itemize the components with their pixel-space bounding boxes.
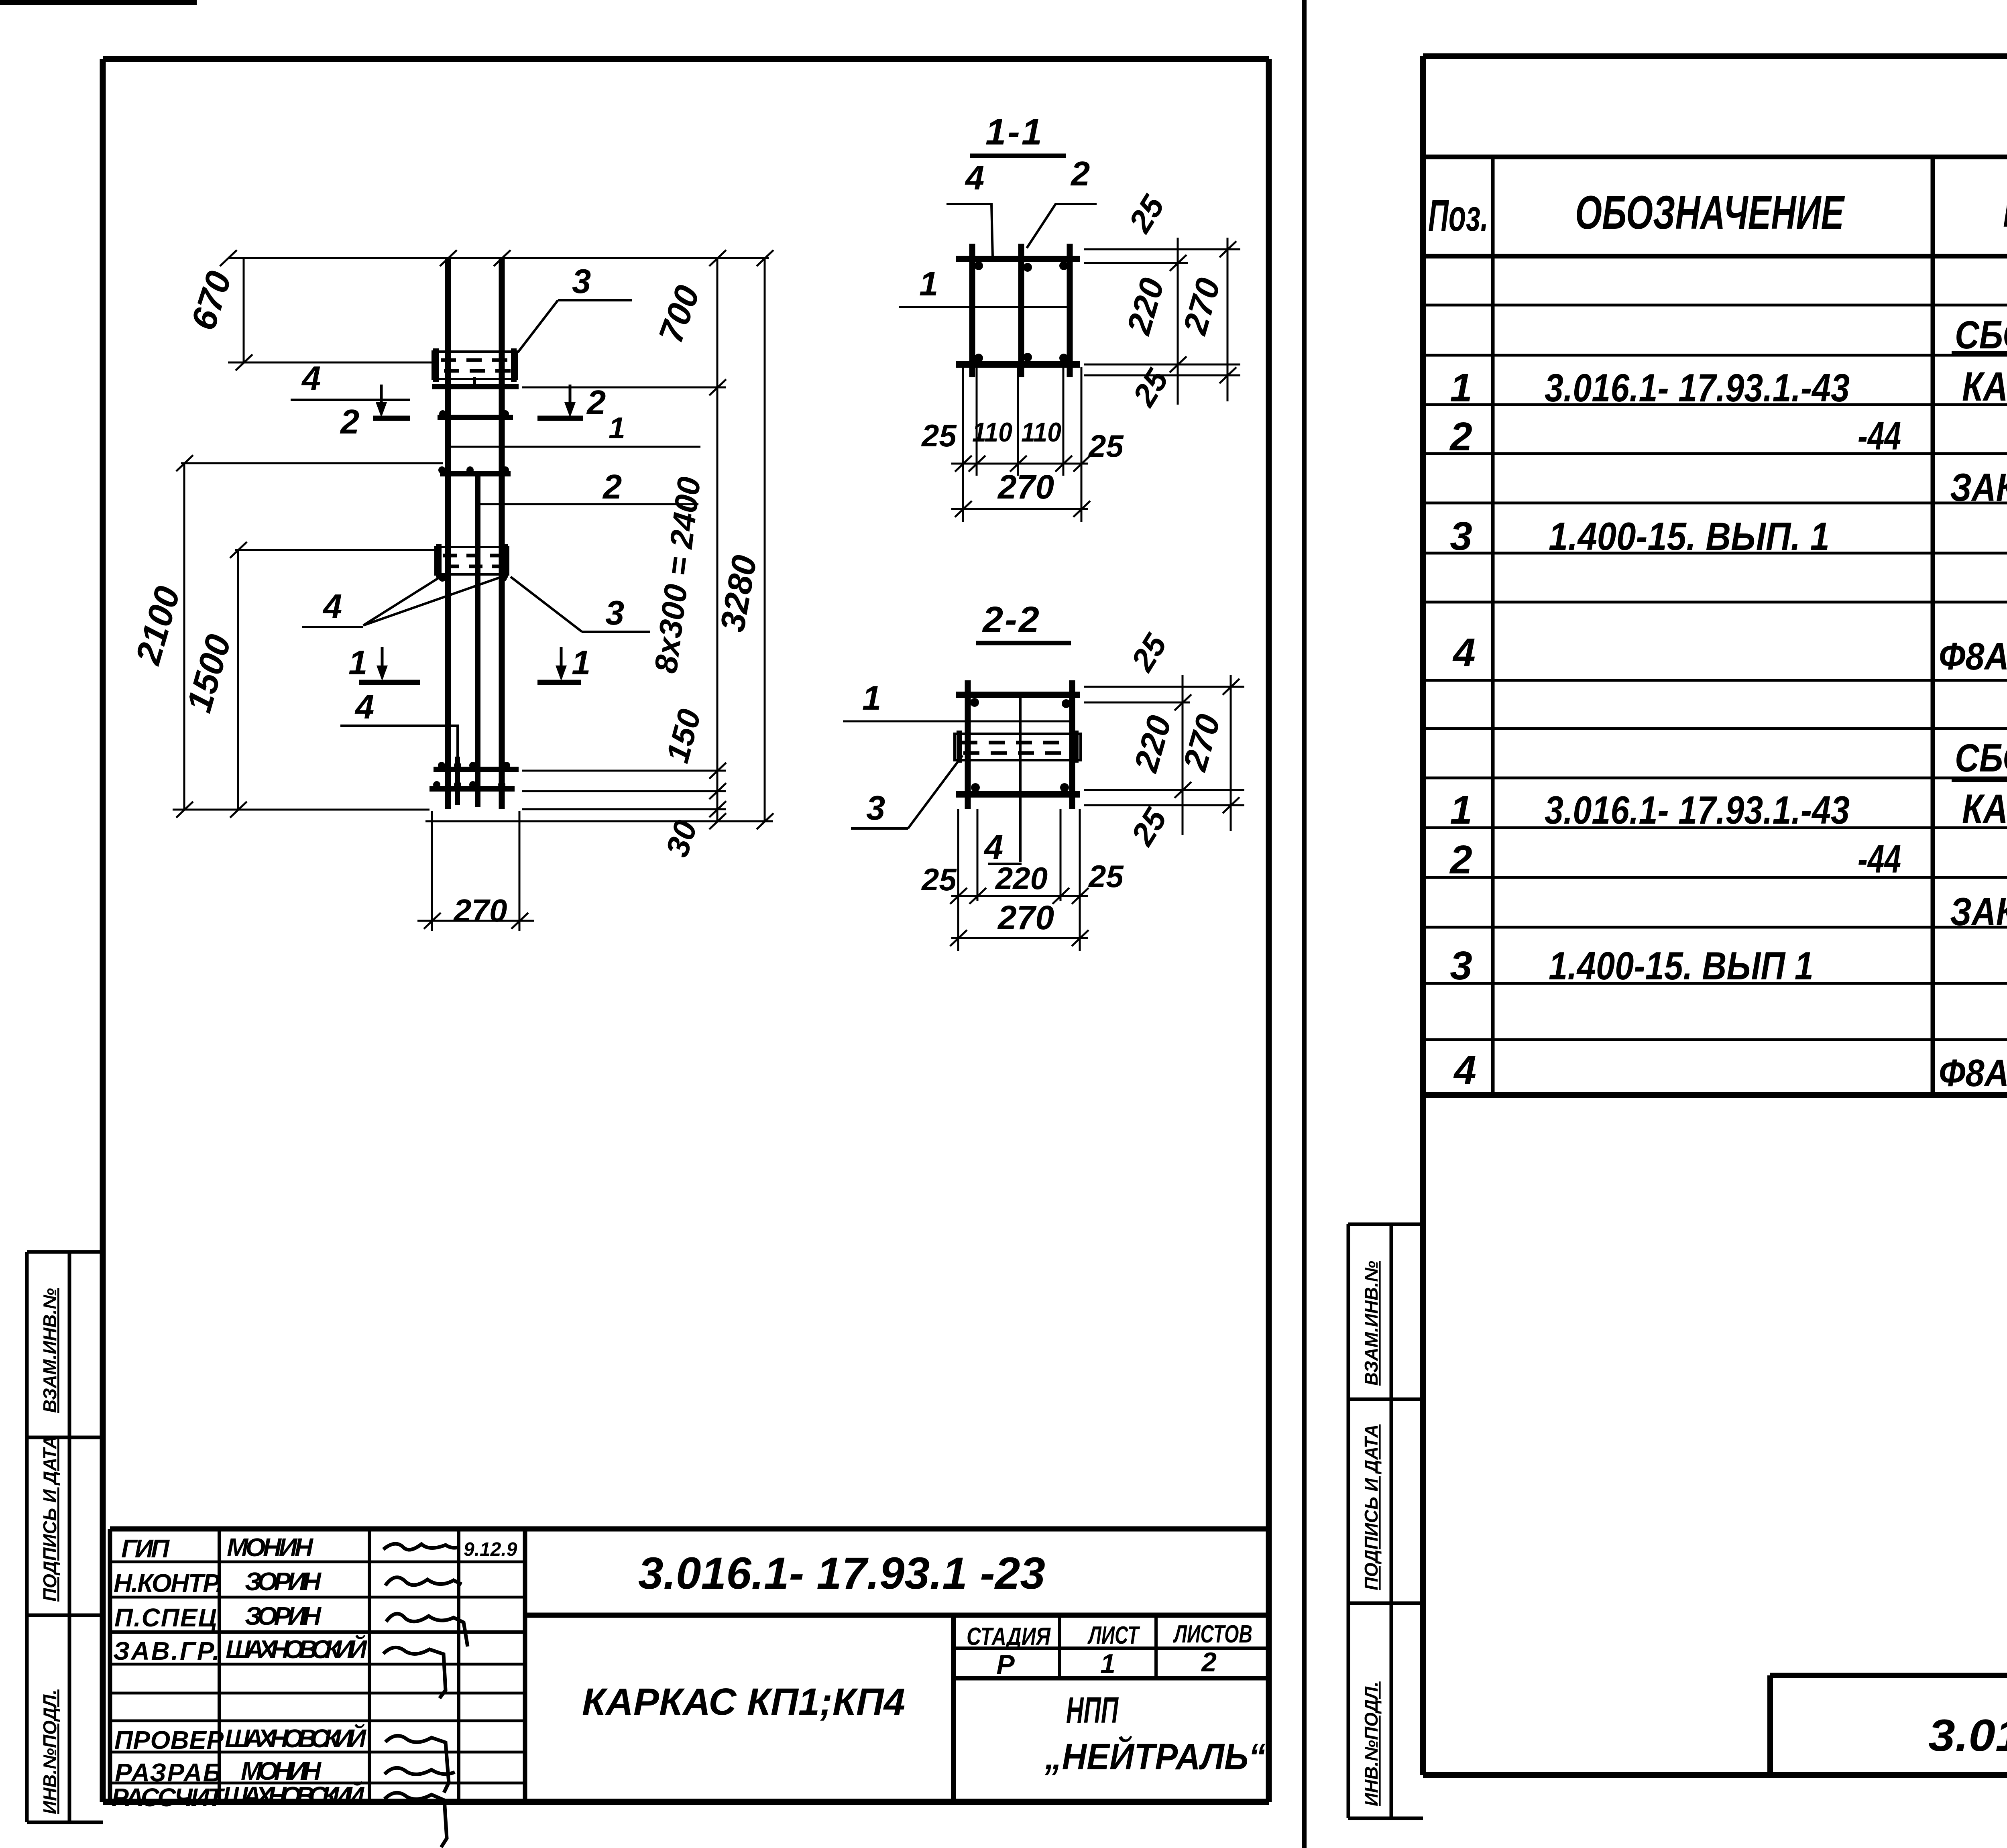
bottom dimension 270 — [417, 811, 534, 931]
svg-text:Р: Р — [996, 1649, 1015, 1680]
svg-text:ШАХНОВСКИЙ: ШАХНОВСКИЙ — [223, 1781, 365, 1810]
sec1 bar section dots — [974, 261, 1068, 362]
table top — [1423, 155, 2007, 159]
svg-text:270: 270 — [453, 893, 507, 928]
sec1 stirrup top — [956, 256, 1080, 262]
svg-text:1.400-15. ВЫП 1: 1.400-15. ВЫП 1 — [1549, 944, 1814, 988]
right extension lines — [425, 387, 773, 821]
dimension 670 — [228, 258, 434, 370]
svg-text:1500: 1500 — [179, 630, 238, 717]
svg-text:1.400-15. ВЫП. 1: 1.400-15. ВЫП. 1 — [1549, 514, 1830, 558]
left page side stamp strip — [27, 1252, 103, 1822]
dimension 3280 line — [757, 258, 773, 829]
title block row lines — [110, 1561, 525, 1563]
svg-text:ИНВ.№ПОДЛ.: ИНВ.№ПОДЛ. — [39, 1689, 60, 1814]
tie (second from top) — [438, 415, 513, 420]
СТАДИЯ box — [951, 1615, 956, 1802]
svg-text:670: 670 — [183, 267, 239, 335]
svg-text:270: 270 — [997, 899, 1054, 936]
inter-page gutter line — [1302, 0, 1307, 1848]
svg-text:9.12.9: 9.12.9 — [464, 1539, 517, 1560]
svg-text:110: 110 — [972, 417, 1012, 448]
svg-text:4: 4 — [1453, 1048, 1476, 1093]
svg-text:2: 2 — [1201, 1647, 1217, 1677]
svg-text:220: 220 — [1119, 274, 1171, 339]
svg-text:ЗОРИН: ЗОРИН — [245, 1567, 322, 1596]
sec1 bottom dimensions — [951, 367, 1090, 522]
svg-text:ЗАВ.ГР.: ЗАВ.ГР. — [113, 1636, 220, 1665]
right page border frame — [1423, 56, 2007, 1775]
extension line to section 1-1 — [447, 446, 700, 448]
svg-text:3280: 3280 — [713, 552, 764, 635]
left page border frame — [103, 59, 1269, 1802]
bottom tie upper — [434, 767, 519, 772]
svg-text:270: 270 — [1175, 274, 1227, 339]
svg-text:ШАХНОВСКИЙ: ШАХНОВСКИЙ — [225, 1723, 367, 1753]
svg-text:2: 2 — [1070, 155, 1090, 193]
tie hook — [473, 377, 476, 387]
row lines — [1423, 304, 2007, 307]
svg-text:25: 25 — [1088, 428, 1124, 464]
svg-text:1: 1 — [1100, 1649, 1115, 1679]
svg-text:4: 4 — [965, 159, 984, 197]
svg-text:Н.КОНТР.: Н.КОНТР. — [114, 1569, 223, 1598]
svg-text:ПОДПИСЬ И ДАТА: ПОДПИСЬ И ДАТА — [39, 1436, 60, 1602]
tie under plate — [432, 384, 519, 389]
svg-text:110: 110 — [1021, 417, 1061, 448]
title block column lines — [108, 1529, 112, 1802]
svg-text:4: 4 — [301, 360, 321, 398]
svg-text:2: 2 — [340, 403, 359, 441]
svg-text:3.016.1- 17.93.1.-43: 3.016.1- 17.93.1.-43 — [1545, 366, 1850, 410]
embedded plate MH806 lower (pos.3) — [436, 544, 508, 578]
top dimension line — [220, 250, 773, 266]
svg-text:КАРКАС КП1;КП4: КАРКАС КП1;КП4 — [582, 1681, 905, 1723]
svg-text:ВЗАМ.ИНВ.№: ВЗАМ.ИНВ.№ — [39, 1288, 60, 1413]
svg-text:3: 3 — [866, 789, 885, 827]
svg-text:3.016.1- 17. 93.1 -23: 3.016.1- 17. 93.1 -23 — [1928, 1710, 2007, 1760]
svg-text:„НЕЙТРАЛЬ“: „НЕЙТРАЛЬ“ — [1044, 1735, 1266, 1777]
svg-text:ЗАКЛАДНОЕ ИЗДЕЛИЕ: ЗАКЛАДНОЕ ИЗДЕЛИЕ — [1950, 465, 2007, 509]
svg-text:-44: -44 — [1858, 837, 1901, 881]
title block row labels — [112, 1534, 225, 1812]
sec2 stirrup top — [956, 692, 1080, 698]
sec2 bar right — [1069, 680, 1075, 809]
svg-text:2: 2 — [1449, 414, 1472, 459]
svg-text:КАРКАС КР5: КАРКАС КР5 — [1962, 786, 2007, 832]
right dimension chain line — [709, 258, 726, 829]
svg-text:НПП: НПП — [1066, 1690, 1119, 1731]
svg-text:ЛИСТ: ЛИСТ — [1087, 1622, 1140, 1649]
table bottom — [1423, 1092, 2007, 1098]
sec2 bar left — [965, 680, 971, 809]
divider under doc number — [525, 1613, 1269, 1618]
svg-text:Поз.: Поз. — [1428, 191, 1488, 240]
svg-text:220: 220 — [995, 861, 1048, 896]
svg-text:25: 25 — [1088, 859, 1124, 894]
embedded plate MH806 upper (pos.3) — [433, 348, 517, 382]
svg-text:2: 2 — [1449, 837, 1472, 882]
svg-text:25: 25 — [921, 862, 957, 897]
sec2 middle bar line / leader of pos.4 — [1019, 695, 1022, 862]
svg-text:150: 150 — [659, 705, 708, 766]
right page side stamp strip — [1348, 1224, 1423, 1818]
sec1 bar right — [1067, 244, 1073, 377]
svg-text:4: 4 — [322, 588, 342, 626]
svg-text:25: 25 — [921, 418, 957, 453]
svg-text:ЗОРИН: ЗОРИН — [245, 1602, 322, 1630]
svg-text:ИНВ.№ПОДЛ.: ИНВ.№ПОДЛ. — [1361, 1681, 1382, 1806]
svg-text:1: 1 — [1450, 365, 1472, 410]
svg-text:25: 25 — [1122, 189, 1171, 239]
svg-text:3: 3 — [1450, 514, 1472, 559]
sec1 right dimensions — [1084, 238, 1240, 405]
svg-text:2100: 2100 — [128, 582, 188, 669]
svg-text:ПРОВЕР: ПРОВЕР — [114, 1726, 224, 1754]
sec1 bar left — [969, 244, 975, 377]
СТАДИЯ ЛИСТ ЛИСТОВ — [967, 1620, 1252, 1680]
svg-text:ЗАКЛАДНОЕ ИЗДЕЛИЕ: ЗАКЛАДНОЕ ИЗДЕЛИЕ — [1950, 889, 2007, 934]
sec2 bottom dimensions — [950, 809, 1089, 951]
svg-text:270: 270 — [997, 468, 1054, 506]
svg-text:МОНИН: МОНИН — [227, 1533, 314, 1562]
sec1 stirrup bottom — [956, 361, 1080, 368]
svg-text:30: 30 — [659, 816, 704, 861]
column lines — [1491, 157, 1495, 1095]
tie at middle bar start — [440, 471, 511, 476]
header bottom — [1423, 254, 2007, 258]
svg-text:2: 2 — [586, 384, 606, 422]
svg-text:2-2: 2-2 — [982, 599, 1041, 640]
svg-text:2: 2 — [602, 468, 622, 506]
svg-text:СБОРОЧНЫЕ ЕДИНИЦЫ: СБОРОЧНЫЕ ЕДИНИЦЫ — [1955, 313, 2007, 357]
svg-text:СТАДИЯ: СТАДИЯ — [967, 1623, 1051, 1651]
svg-text:1: 1 — [609, 411, 625, 445]
svg-text:ПОДПИСЬ И ДАТА: ПОДПИСЬ И ДАТА — [1361, 1425, 1382, 1590]
svg-text:ВЗАМ.ИНВ.№: ВЗАМ.ИНВ.№ — [1361, 1261, 1382, 1386]
bottom tie lower — [429, 786, 515, 792]
svg-text:4: 4 — [354, 688, 374, 726]
svg-text:25: 25 — [1126, 362, 1175, 413]
svg-text:1: 1 — [1450, 788, 1472, 832]
svg-text:РАССЧИТ: РАССЧИТ — [112, 1783, 225, 1812]
signatures — [383, 1544, 468, 1847]
sec1 bar middle — [1018, 244, 1024, 377]
svg-text:-44: -44 — [1858, 414, 1901, 458]
svg-text:3: 3 — [572, 263, 591, 301]
svg-text:3: 3 — [605, 594, 624, 632]
svg-text:1: 1 — [862, 679, 881, 717]
svg-text:П.СПЕЦ: П.СПЕЦ — [114, 1603, 217, 1632]
svg-text:Ф8АI, ГОСТ 5781-82*, ℓ=270: Ф8АI, ГОСТ 5781-82*, ℓ=270 — [1939, 635, 2007, 678]
sec2 bar section dots — [970, 698, 1071, 792]
svg-text:3.016.1- 17.93.1 -23: 3.016.1- 17.93.1 -23 — [638, 1548, 1045, 1598]
svg-text:ОБОЗНАЧЕНИЕ: ОБОЗНАЧЕНИЕ — [1575, 186, 1845, 239]
svg-text:1-1: 1-1 — [985, 112, 1044, 153]
title block top line — [110, 1526, 1269, 1532]
title block name column — [223, 1533, 368, 1810]
svg-text:1: 1 — [348, 644, 367, 682]
svg-text:ГИП: ГИП — [121, 1534, 170, 1563]
short bar at bottom (KP2) — [455, 757, 460, 805]
longitudinal bar left — [445, 257, 451, 809]
svg-text:КАРКАС КР1: КАРКАС КР1 — [1962, 364, 2007, 409]
svg-text:4: 4 — [1452, 630, 1476, 675]
svg-text:700: 700 — [651, 281, 707, 348]
svg-text:СБОРОЧНЫЕ ЕДИНИЦЫ: СБОРОЧНЫЕ ЕДИНИЦЫ — [1955, 736, 2007, 780]
sec2 right dimensions — [1084, 675, 1244, 835]
svg-text:ЛИСТОВ: ЛИСТОВ — [1173, 1620, 1252, 1648]
sec2 embedded plate МН806 — [955, 731, 1081, 763]
svg-text:220: 220 — [1126, 711, 1179, 777]
svg-text:1: 1 — [572, 644, 590, 682]
svg-text:ШАХНОВСКИЙ: ШАХНОВСКИЙ — [226, 1634, 368, 1664]
svg-text:Ф8АI, ГОСТ 5781-82*, ℓ=270: Ф8АI, ГОСТ 5781-82*, ℓ=270 — [1939, 1052, 2007, 1095]
svg-text:25: 25 — [1124, 627, 1174, 678]
dimension 2100 — [176, 455, 443, 818]
dimension 1500 — [173, 542, 437, 818]
scan artifact top-left bar — [0, 0, 197, 5]
sec2 stirrup bottom — [956, 791, 1080, 798]
tie hook circles — [439, 410, 446, 417]
svg-text:25: 25 — [1124, 802, 1174, 852]
longitudinal bar right — [499, 257, 505, 809]
longitudinal bar middle (pos.2) — [475, 474, 480, 807]
svg-text:1: 1 — [919, 265, 938, 303]
leader of pos.2 bar — [480, 503, 698, 505]
svg-text:3.016.1- 17.93.1.-43: 3.016.1- 17.93.1.-43 — [1545, 788, 1850, 832]
svg-text:НАИМЕНОВАНИЕ: НАИМЕНОВАНИЕ — [2003, 184, 2007, 237]
svg-text:3: 3 — [1450, 943, 1472, 988]
